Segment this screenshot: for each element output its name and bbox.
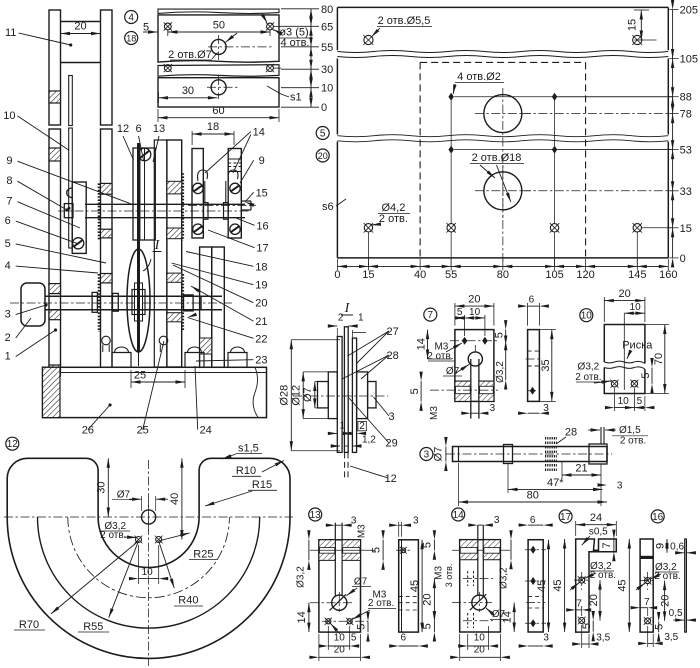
svg-text:45: 45 [617,579,629,591]
svg-text:R70: R70 [19,619,39,631]
svg-text:5: 5 [637,396,643,407]
svg-text:40: 40 [169,493,181,505]
svg-text:R25: R25 [193,548,213,560]
svg-text:s1,5: s1,5 [238,443,259,455]
svg-text:s6: s6 [322,201,334,213]
svg-text:19: 19 [255,280,267,292]
svg-text:7: 7 [428,310,434,321]
svg-text:4: 4 [128,12,134,23]
svg-text:5: 5 [457,307,463,318]
svg-text:4 отв.: 4 отв. [281,37,310,49]
svg-text:18: 18 [126,33,136,43]
svg-text:1: 1 [358,313,364,324]
svg-text:13: 13 [310,510,322,521]
svg-text:9: 9 [654,543,666,549]
svg-text:10: 10 [581,311,593,322]
svg-text:14: 14 [253,127,265,139]
svg-text:20: 20 [474,644,486,655]
svg-text:18: 18 [255,261,267,273]
svg-text:40: 40 [414,269,426,281]
svg-text:20: 20 [468,294,480,306]
svg-text:47*: 47* [547,477,564,489]
svg-text:65: 65 [321,21,333,33]
svg-text:3,5: 3,5 [596,633,610,644]
svg-text:12: 12 [385,473,397,485]
svg-text:80: 80 [497,269,509,281]
svg-text:15: 15 [256,187,268,199]
svg-text:7: 7 [6,196,12,208]
svg-text:23: 23 [255,355,267,367]
svg-text:120: 120 [576,269,594,281]
svg-text:0: 0 [680,253,686,265]
svg-text:21: 21 [575,463,587,475]
svg-text:10: 10 [630,302,642,313]
svg-text:5: 5 [356,624,368,630]
svg-text:2 отв.: 2 отв. [590,570,616,581]
svg-text:R40: R40 [178,595,198,607]
svg-text:Ø3,2: Ø3,2 [499,567,510,589]
svg-text:R15: R15 [252,479,272,491]
svg-text:16: 16 [256,220,268,232]
svg-text:160: 160 [659,269,677,281]
svg-text:4: 4 [5,260,11,272]
svg-text:9: 9 [259,155,265,167]
svg-text:2 отв.Ø5,5: 2 отв.Ø5,5 [378,15,431,27]
svg-text:26: 26 [82,425,94,437]
svg-text:7: 7 [576,599,582,610]
svg-text:5: 5 [494,332,506,338]
svg-text:3: 3 [490,403,496,414]
svg-text:105: 105 [545,269,563,281]
svg-text:5: 5 [5,238,11,250]
svg-text:88: 88 [680,92,692,104]
svg-text:Ø7: Ø7 [117,490,131,501]
svg-text:3: 3 [617,481,623,492]
svg-text:6: 6 [401,633,407,644]
svg-text:25: 25 [134,370,146,382]
svg-text:3 отв.: 3 отв. [444,564,454,588]
svg-text:3: 3 [543,633,549,644]
svg-text:R55: R55 [83,621,103,633]
svg-text:20: 20 [618,288,630,300]
svg-text:10: 10 [334,633,346,644]
svg-text:18: 18 [207,121,219,133]
svg-text:6: 6 [529,295,535,306]
svg-text:33: 33 [680,186,692,198]
svg-text:15: 15 [626,19,638,31]
svg-text:15: 15 [362,269,374,281]
svg-text:8: 8 [6,175,12,187]
svg-text:80: 80 [527,490,539,502]
svg-text:10: 10 [3,110,15,122]
svg-text:10: 10 [142,567,154,578]
svg-text:53: 53 [680,145,692,157]
svg-text:s0,5: s0,5 [589,526,608,537]
svg-text:2 отв.: 2 отв. [379,213,408,225]
svg-text:Ø7: Ø7 [433,447,445,462]
svg-text:55: 55 [321,42,333,54]
svg-text:10: 10 [469,307,481,318]
svg-text:Ø7: Ø7 [354,576,368,587]
svg-text:2 отв.: 2 отв. [427,351,453,362]
svg-text:M3: M3 [356,524,367,538]
svg-text:22: 22 [255,333,267,345]
svg-text:Ø3,2: Ø3,2 [296,566,307,588]
svg-text:16: 16 [652,512,664,523]
svg-text:7: 7 [601,542,613,548]
svg-text:2 отв.: 2 отв. [620,436,646,447]
svg-text:20: 20 [255,298,267,310]
svg-text:3: 3 [413,516,419,527]
svg-text:30: 30 [321,64,333,76]
svg-text:15: 15 [680,223,692,235]
svg-text:30: 30 [182,85,194,97]
svg-text:10: 10 [474,633,486,644]
svg-text:20: 20 [422,594,434,606]
svg-text:35: 35 [540,359,552,371]
svg-text:Ø28: Ø28 [279,385,291,406]
svg-text:14: 14 [416,338,428,350]
svg-text:20: 20 [659,595,671,607]
svg-text:45: 45 [536,580,548,592]
svg-text:5: 5 [320,128,326,139]
svg-text:14: 14 [453,510,465,521]
svg-text:205: 205 [680,5,698,17]
svg-text:2 отв.Ø18: 2 отв.Ø18 [472,152,522,164]
svg-text:24: 24 [590,512,602,524]
svg-text:Риска: Риска [622,340,653,352]
svg-text:0: 0 [334,269,340,281]
svg-text:9: 9 [6,155,12,167]
svg-text:4 отв.Ø2: 4 отв.Ø2 [457,71,501,83]
svg-text:45: 45 [552,579,564,591]
svg-text:5: 5 [409,388,421,394]
svg-text:5: 5 [422,623,434,629]
svg-text:3,5: 3,5 [664,632,678,643]
svg-text:1,2: 1,2 [362,435,376,446]
svg-text:2: 2 [338,312,344,323]
svg-text:M3: M3 [429,406,440,420]
svg-text:5: 5 [422,542,434,548]
svg-text:55: 55 [445,269,457,281]
svg-text:Ø1,5: Ø1,5 [619,425,641,436]
svg-text:1: 1 [340,421,346,432]
svg-text:2 отв.: 2 отв. [100,530,126,541]
svg-text:11: 11 [5,27,16,39]
svg-text:5: 5 [654,624,666,630]
svg-text:Ø12: Ø12 [291,385,303,406]
svg-text:5: 5 [351,633,357,644]
svg-text:Ø7: Ø7 [302,387,314,402]
svg-text:29: 29 [385,438,397,450]
svg-text:5: 5 [640,373,652,379]
svg-text:21: 21 [255,316,267,328]
svg-text:5: 5 [371,547,383,553]
svg-text:145: 145 [628,269,646,281]
svg-text:10: 10 [618,396,630,407]
svg-text:6: 6 [530,515,536,526]
svg-text:0,5: 0,5 [669,608,683,619]
svg-text:2 отв.Ø7: 2 отв.Ø7 [168,49,212,61]
svg-text:Ø3,2: Ø3,2 [578,361,600,372]
svg-text:20: 20 [588,594,600,606]
svg-text:45: 45 [409,580,421,592]
svg-text:M3: M3 [433,566,444,580]
svg-text:14: 14 [502,611,514,623]
svg-text:14: 14 [296,611,308,623]
svg-text:2 отв.: 2 отв. [368,598,394,609]
svg-text:20: 20 [74,21,86,33]
svg-text:Ø3,2: Ø3,2 [495,361,506,383]
svg-text:13: 13 [153,123,165,135]
svg-text:3: 3 [424,449,430,460]
svg-text:0: 0 [321,102,327,114]
svg-text:70: 70 [653,353,665,365]
svg-text:6: 6 [135,123,141,135]
svg-text:17: 17 [560,512,572,523]
svg-text:3: 3 [494,515,500,526]
svg-text:2 отв.: 2 отв. [575,372,601,383]
svg-text:17: 17 [256,243,268,255]
svg-text:2: 2 [5,332,11,344]
svg-text:105: 105 [680,54,698,66]
svg-text:0,6: 0,6 [670,542,684,553]
svg-text:20: 20 [318,151,328,161]
svg-text:24: 24 [200,425,212,437]
svg-text:30: 30 [96,482,108,494]
svg-text:12: 12 [117,123,129,135]
svg-text:20: 20 [334,644,346,655]
svg-text:7: 7 [644,597,650,608]
svg-text:6: 6 [5,215,11,227]
svg-text:78: 78 [680,109,692,121]
svg-text:28: 28 [565,427,577,439]
svg-text:12: 12 [7,439,19,450]
svg-text:2: 2 [359,421,365,432]
svg-text:10: 10 [321,83,333,95]
svg-text:25: 25 [137,425,149,437]
svg-text:R10: R10 [236,465,256,477]
svg-text:80: 80 [321,4,333,16]
svg-text:1: 1 [5,351,11,363]
svg-text:3: 3 [389,411,395,423]
svg-text:3: 3 [5,309,11,321]
svg-text:5: 5 [581,623,593,629]
svg-text:60: 60 [212,105,224,117]
svg-text:50: 50 [213,20,225,32]
svg-text:s1: s1 [290,92,302,104]
